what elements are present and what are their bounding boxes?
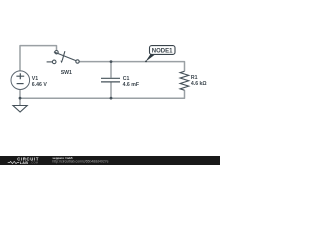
svg-text:http://circuitlab.com/c/65b488: http://circuitlab.com/c/65b488d4927e xyxy=(52,160,108,164)
resistor R1 xyxy=(180,71,189,90)
SW1 lever xyxy=(54,52,76,61)
watermark bar xyxy=(0,156,220,165)
capacitor C1 xyxy=(101,78,120,82)
svg-text:NODE1: NODE1 xyxy=(152,49,173,55)
node NODE1 pointer tip dot xyxy=(145,61,147,63)
SW1 arrow head xyxy=(61,60,64,63)
svg-text:6.46 V: 6.46 V xyxy=(32,82,48,88)
watermark logo zigzag xyxy=(8,161,20,163)
wire V1 top lead to switch feed xyxy=(20,46,57,71)
watermark CircuitLab logo xyxy=(17,156,39,165)
junction dot V1/bottom rail xyxy=(19,97,22,100)
SW1 top terminal circle xyxy=(55,51,58,54)
voltage source V1 xyxy=(11,71,30,90)
junction dot C1 top xyxy=(110,60,113,63)
SW1 right terminal circle xyxy=(76,60,79,63)
node NODE1 flag box xyxy=(150,46,176,55)
svg-text:4.6 kΩ: 4.6 kΩ xyxy=(191,81,207,87)
wire C1 bottom lead xyxy=(110,82,112,98)
svg-text:.COM: .COM xyxy=(31,161,39,165)
svg-text:SW1: SW1 xyxy=(61,70,72,76)
SW1 left terminal circle xyxy=(52,60,56,64)
junction dot C1 bottom xyxy=(110,97,113,100)
wire V1 bottom lead and ground lead xyxy=(19,90,21,106)
wire C1 top lead xyxy=(110,62,112,78)
node NODE1 flag pointer xyxy=(145,54,155,62)
wire top rail with R1 top lead xyxy=(79,62,184,72)
wire bottom rail with R1 bottom lead xyxy=(20,90,185,98)
svg-text:LAB: LAB xyxy=(20,161,28,165)
switch SW1 xyxy=(47,51,80,64)
ground xyxy=(13,106,27,113)
svg-text:4.6 mF: 4.6 mF xyxy=(123,82,139,88)
SW1 actuation arrow xyxy=(62,51,65,60)
SW1 left stub xyxy=(47,61,53,63)
